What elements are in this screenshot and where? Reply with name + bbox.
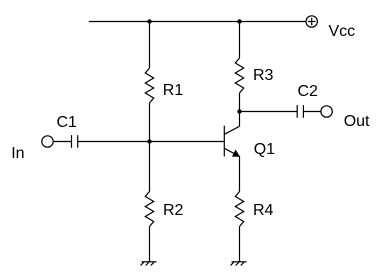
resistor R3 <box>235 58 243 93</box>
wire rail to R3 <box>239 22 241 59</box>
svg-text:R1: R1 <box>163 82 184 99</box>
svg-text:R4: R4 <box>253 202 274 219</box>
wire base node to R2 <box>149 142 151 192</box>
capacitor C2 <box>297 105 303 118</box>
svg-text:C1: C1 <box>57 114 78 131</box>
svg-text:Out: Out <box>344 113 370 130</box>
capacitor C1 <box>72 135 78 148</box>
power terminal Vcc <box>306 16 317 27</box>
terminal Out <box>321 106 332 117</box>
ground at R4 <box>231 262 247 266</box>
resistor R2 <box>145 192 153 227</box>
node collector junction <box>237 109 241 113</box>
wire collector node to C2 <box>240 111 298 113</box>
svg-text:Q1: Q1 <box>254 141 275 158</box>
resistor R4 <box>235 192 243 227</box>
svg-text:R2: R2 <box>163 202 184 219</box>
wire rail to R1 <box>149 22 151 69</box>
svg-text:R3: R3 <box>253 67 274 84</box>
svg-text:C2: C2 <box>298 83 319 100</box>
svg-text:In: In <box>11 145 24 162</box>
node rail/R1 junction <box>147 19 151 23</box>
wire emitter to R4 <box>239 156 241 191</box>
wire C2 to Out <box>303 111 321 113</box>
wire R4 to ground <box>239 227 241 262</box>
wire R3 to collector node <box>239 93 241 112</box>
wire R1 to base node <box>149 103 151 142</box>
terminal In <box>42 136 53 147</box>
resistor R1 <box>145 68 153 103</box>
ground at R2 <box>141 262 157 266</box>
node base junction <box>147 139 151 143</box>
wire Vcc rail <box>89 21 306 23</box>
wire R2 to ground <box>149 227 151 262</box>
wire collector to node <box>239 112 241 127</box>
svg-text:Vcc: Vcc <box>329 23 356 40</box>
wire In to C1 <box>54 141 72 143</box>
node rail/R3 junction <box>237 19 241 23</box>
wire C1 to base <box>78 141 225 143</box>
transistor Q1 <box>224 126 239 157</box>
